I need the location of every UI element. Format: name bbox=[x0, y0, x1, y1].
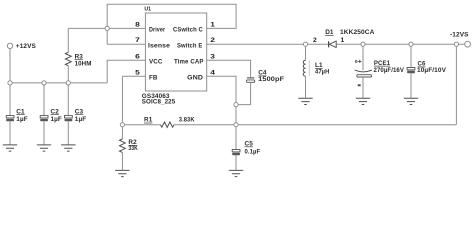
terminal +12VS bbox=[7, 43, 36, 50]
capacitor C3 bbox=[65, 83, 73, 145]
label 47uH bbox=[315, 68, 330, 75]
ground below C2 bbox=[37, 145, 51, 151]
wire C4 bottom to junction bbox=[236, 82, 251, 104]
label 33K bbox=[128, 145, 138, 152]
pin number 8 bbox=[135, 21, 140, 28]
label D1 bbox=[325, 29, 334, 36]
svg-text:SOIC8_225: SOIC8_225 bbox=[142, 99, 176, 106]
node junction C6 bbox=[409, 42, 413, 46]
svg-text:CSwitch C: CSwitch C bbox=[173, 27, 203, 34]
capacitor PCE1 polarized bbox=[355, 44, 372, 98]
svg-text:Isense: Isense bbox=[148, 43, 170, 50]
svg-text:R1: R1 bbox=[144, 117, 153, 124]
label C2 bbox=[51, 108, 60, 115]
ground below L1 bbox=[298, 98, 312, 104]
svg-text:C2: C2 bbox=[51, 108, 60, 115]
label L1 bbox=[315, 62, 323, 69]
pin number 5 bbox=[135, 69, 140, 76]
svg-text:1µF: 1µF bbox=[16, 116, 27, 123]
node junction C5 top bbox=[234, 123, 238, 127]
wire divider to R1 bbox=[122, 124, 160, 126]
ground below PCE1 bbox=[356, 98, 370, 104]
svg-text:C3: C3 bbox=[75, 108, 84, 115]
svg-text:1µF: 1µF bbox=[75, 116, 86, 123]
svg-text:3: 3 bbox=[210, 53, 215, 60]
pin number 2 (diode cathode) bbox=[313, 37, 317, 44]
label 1500pF bbox=[258, 76, 284, 83]
wire pin3 TimeCAP to C4 bbox=[207, 60, 251, 77]
svg-text:7: 7 bbox=[135, 37, 140, 44]
pin label Switch E bbox=[177, 43, 202, 50]
svg-text:2: 2 bbox=[210, 37, 215, 44]
diode D1 bbox=[329, 41, 337, 47]
label C3 bbox=[75, 108, 84, 115]
wire pin5 FB stub bbox=[122, 75, 145, 77]
svg-text:C5: C5 bbox=[245, 141, 254, 148]
node junction L1 bbox=[303, 42, 307, 46]
svg-text:D1: D1 bbox=[325, 29, 334, 36]
svg-text:C1: C1 bbox=[16, 108, 25, 115]
wire pin7 stub bbox=[107, 43, 145, 45]
pin number 4 bbox=[210, 69, 215, 76]
svg-text:0.1µF: 0.1µF bbox=[245, 148, 261, 155]
pin number 7 bbox=[135, 37, 140, 44]
svg-text:VCC: VCC bbox=[149, 59, 163, 66]
inductor L1 bbox=[303, 44, 309, 98]
label U1 bbox=[144, 7, 151, 13]
svg-text:R3: R3 bbox=[75, 53, 84, 60]
svg-text:U1: U1 bbox=[144, 7, 151, 13]
label R1 bbox=[144, 117, 153, 124]
resistor R1 bbox=[161, 122, 175, 127]
op-amp U1 chip body GS34063 bbox=[145, 13, 206, 91]
svg-text:GND: GND bbox=[187, 75, 203, 82]
pin label VCC bbox=[149, 59, 163, 66]
resistor R3 bbox=[65, 28, 71, 83]
resistor R2 bbox=[120, 125, 126, 171]
label GS34063 bbox=[142, 93, 170, 100]
svg-text:5: 5 bbox=[135, 69, 140, 76]
svg-text:Switch E: Switch E bbox=[177, 43, 202, 50]
wire +12VS down to bus bbox=[9, 49, 11, 83]
svg-text:10HM: 10HM bbox=[75, 61, 92, 68]
node junction C4/pin4 bbox=[234, 103, 238, 107]
label 1KK250CA bbox=[340, 29, 375, 36]
label 0.1uF bbox=[245, 148, 261, 155]
ground below R2 bbox=[115, 170, 129, 176]
svg-text:FB: FB bbox=[149, 75, 158, 82]
svg-text:6: 6 bbox=[135, 53, 140, 60]
label 1uF (C3) bbox=[75, 116, 86, 123]
node junction output feedback tap bbox=[454, 42, 458, 46]
label 10HM bbox=[75, 61, 92, 68]
svg-text:+12VS: +12VS bbox=[16, 43, 37, 50]
svg-text:270µF/16V: 270µF/16V bbox=[374, 67, 405, 74]
svg-text:PCE1: PCE1 bbox=[374, 60, 391, 67]
svg-text:3.83K: 3.83K bbox=[179, 117, 195, 124]
wire bus bbox=[10, 82, 107, 84]
label 270uF/16V bbox=[374, 67, 405, 74]
svg-text:10µF/10V: 10µF/10V bbox=[417, 67, 447, 74]
wire top loop pin1 to pin7 bbox=[107, 4, 236, 44]
label 3.83K bbox=[179, 117, 195, 124]
node bus junction C3 bbox=[66, 81, 70, 85]
ground below C6 bbox=[404, 98, 418, 104]
svg-text:4: 4 bbox=[210, 69, 215, 76]
ground below C5 bbox=[229, 170, 243, 176]
node divider junction bbox=[120, 123, 124, 127]
pin label GND bbox=[187, 75, 203, 82]
label C4 bbox=[258, 70, 267, 77]
svg-text:1KK250CA: 1KK250CA bbox=[340, 29, 375, 36]
node bus junction C1 bbox=[8, 81, 12, 85]
label 1uF (C2) bbox=[51, 116, 62, 123]
wire pin4 GND to junction bbox=[207, 76, 236, 104]
svg-text:1µF: 1µF bbox=[51, 116, 62, 123]
pin number 2 bbox=[210, 37, 215, 44]
label C5 bbox=[245, 141, 254, 148]
capacitor C4 bbox=[247, 78, 255, 82]
svg-text:33K: 33K bbox=[128, 145, 138, 152]
label C6 bbox=[418, 61, 426, 68]
wire FB down to divider bbox=[121, 76, 123, 124]
label C1 bbox=[16, 108, 25, 115]
svg-text:Driver: Driver bbox=[149, 27, 166, 34]
svg-text:1: 1 bbox=[210, 21, 215, 28]
capacitor C6 bbox=[407, 44, 415, 98]
capacitor C1 bbox=[6, 83, 14, 145]
pin number 1 (diode anode) bbox=[341, 37, 345, 44]
ground below C3 bbox=[61, 145, 75, 151]
svg-text:1500pF: 1500pF bbox=[258, 76, 284, 83]
terminal -12VS bbox=[450, 32, 471, 48]
pin number 3 bbox=[210, 53, 215, 60]
wire pin8 row horizontal (R3 top to chip) bbox=[68, 27, 145, 29]
node junction at pin8 cross bbox=[105, 26, 109, 30]
pin label CSwitch C bbox=[173, 27, 203, 34]
pin label Time CAP bbox=[174, 59, 204, 66]
svg-text:8: 8 bbox=[135, 21, 140, 28]
label SOIC8_225 bbox=[142, 99, 176, 106]
label R3 bbox=[75, 53, 84, 60]
node junction PCE1 bbox=[361, 42, 365, 46]
label 1uF (C1) bbox=[16, 116, 27, 123]
svg-text:-12VS: -12VS bbox=[450, 32, 469, 39]
wire diode to -12VS bbox=[336, 43, 465, 45]
pin number 6 bbox=[135, 53, 140, 60]
capacitor C5 bbox=[232, 125, 240, 171]
label R2 bbox=[128, 139, 137, 146]
node bus junction C2 bbox=[42, 81, 46, 85]
pin label Driver bbox=[149, 27, 166, 34]
wire output down to R1 wire bbox=[455, 44, 457, 125]
svg-text:Time CAP: Time CAP bbox=[174, 59, 204, 66]
pin label FB bbox=[149, 75, 158, 82]
pin number 1 bbox=[210, 21, 215, 28]
svg-text:1: 1 bbox=[341, 37, 345, 44]
label 10uF/10V bbox=[417, 67, 447, 74]
pin label Isense bbox=[148, 43, 170, 50]
wire pin6 VCC to bus bbox=[107, 60, 145, 83]
wire pin2 SwitchE to diode bbox=[207, 43, 329, 45]
svg-text:2: 2 bbox=[313, 37, 317, 44]
wire R1 to output node bbox=[174, 124, 456, 126]
wire junction down bbox=[235, 105, 237, 125]
label PCE1 bbox=[374, 60, 391, 67]
ground below C1 bbox=[3, 145, 17, 151]
capacitor C2 bbox=[40, 83, 48, 145]
svg-text:47µH: 47µH bbox=[315, 68, 330, 75]
